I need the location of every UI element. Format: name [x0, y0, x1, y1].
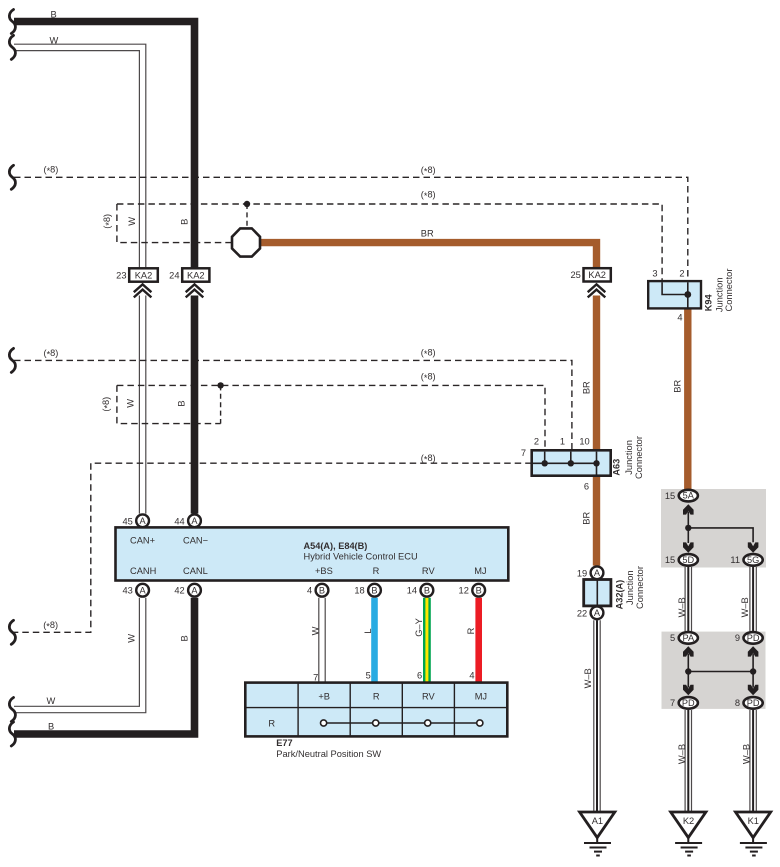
svg-text:B: B: [180, 635, 190, 641]
svg-text:5A: 5A: [683, 491, 695, 501]
svg-text:PA: PA: [683, 633, 695, 643]
svg-text:8: 8: [735, 698, 740, 708]
svg-text:3: 3: [652, 269, 657, 279]
wire BR: octagon to connector KA2 pin 25: [260, 243, 597, 269]
harness break squiggle at (*8) line y360: [9, 348, 15, 372]
svg-text:9: 9: [735, 633, 740, 643]
svg-text:5: 5: [366, 671, 371, 681]
svg-text:CANL: CANL: [183, 566, 208, 576]
svg-text:2: 2: [534, 437, 539, 447]
svg-text:L: L: [363, 628, 373, 633]
harness break squiggle at B bottom exit: [9, 722, 15, 746]
svg-text:PD: PD: [682, 698, 695, 708]
connector KA2 pin 25 chevron: [588, 284, 606, 297]
svg-text:A32(A): A32(A): [614, 580, 624, 610]
dashed option line (*8) to A63 pin 1: [14, 360, 572, 450]
svg-text:(*8): (*8): [102, 214, 114, 229]
wire W (CANH) hollow: ECU pin 43 to left exit: [14, 598, 143, 710]
svg-text:B: B: [51, 9, 57, 19]
svg-text:PD: PD: [747, 698, 760, 708]
svg-text:+B: +B: [318, 692, 330, 702]
svg-text:(*8): (*8): [421, 453, 436, 465]
wire B (CAN-) thick black: top entry to connector KA2 pin 24: [14, 22, 195, 269]
svg-text:5D: 5D: [682, 555, 694, 565]
svg-text:5: 5: [670, 633, 675, 643]
svg-text:11: 11: [730, 555, 740, 565]
svg-text:22: 22: [577, 608, 587, 618]
svg-text:A: A: [140, 516, 147, 526]
svg-text:25: 25: [570, 270, 580, 280]
svg-text:(*8): (*8): [44, 348, 59, 360]
svg-text:B: B: [180, 219, 190, 225]
svg-text:Connector: Connector: [724, 269, 734, 312]
svg-text:W–B: W–B: [677, 744, 687, 764]
shield panel (upper right connector block shading): [661, 489, 766, 568]
harness break squiggle at (*8) line y177: [9, 165, 15, 189]
svg-text:R: R: [373, 566, 380, 576]
svg-text:4: 4: [677, 313, 682, 323]
svg-text:Park/Neutral Position SW: Park/Neutral Position SW: [276, 749, 381, 759]
wire W-B: PD pin 7 to ground K2: [684, 710, 692, 812]
svg-text:BR: BR: [581, 512, 591, 525]
svg-text:A: A: [191, 585, 198, 595]
svg-text:2: 2: [679, 269, 684, 279]
svg-text:KA2: KA2: [135, 270, 153, 280]
node 5G oval pin: [730, 554, 762, 566]
svg-text:6: 6: [417, 671, 422, 681]
svg-text:(*8): (*8): [421, 189, 436, 201]
svg-text:K94: K94: [703, 293, 713, 311]
svg-text:(*8): (*8): [421, 165, 436, 177]
wire L (blue): ECU pin 18 to E77 pin 5: [371, 598, 378, 683]
svg-text:(*8): (*8): [43, 620, 58, 632]
connector arrow down into PD pin 8: [748, 685, 759, 695]
wire B (CANL): ECU pin 42 to left exit: [14, 598, 195, 734]
svg-text:RV: RV: [422, 566, 436, 576]
wire R (red): ECU pin 12 to E77 pin 4: [475, 598, 482, 683]
wire B (CAN-): below KA2 chevron to ECU pin 44: [191, 296, 199, 514]
wire W (CAN+) hollow white wire: top entry to connector KA2 pin 23: [14, 47, 143, 268]
shield octagon: [232, 228, 260, 256]
ground A1: [580, 812, 615, 856]
svg-text:BR: BR: [672, 380, 682, 393]
svg-text:Hybrid Vehicle Control ECU: Hybrid Vehicle Control ECU: [304, 552, 418, 562]
svg-text:4: 4: [469, 671, 474, 681]
harness break squiggle at B top entry: [9, 10, 15, 34]
svg-text:B: B: [319, 585, 325, 595]
dashed option line (*8) shield top edge to A63 pin 2: [117, 385, 545, 450]
svg-text:W: W: [127, 634, 137, 643]
dashed shield box lower (left and bottom edges): [117, 385, 221, 423]
svg-text:W–B: W–B: [677, 597, 687, 617]
svg-text:(*8): (*8): [44, 165, 59, 177]
svg-text:6: 6: [584, 482, 589, 492]
connector arrow down into 5D: [683, 542, 694, 552]
node PA oval pin 5: [670, 632, 698, 644]
svg-text:15: 15: [665, 491, 675, 501]
wire link PA to junction: [687, 654, 689, 688]
connector arrow up into PD pin 9: [748, 646, 759, 656]
wire link PD9 to junction: [752, 654, 754, 688]
wire BR: K94 pin 4 down to 5A: [684, 308, 691, 489]
svg-text:W–B: W–B: [583, 668, 593, 688]
wire BR: below KA2 chevron through A63 to A32(A) pin 19: [593, 296, 600, 566]
dashed drop from junction to shield octagon: [246, 204, 248, 228]
dashed option line (*8) shield top edge to K94 pin 3: [117, 204, 662, 281]
svg-text:44: 44: [174, 516, 184, 526]
svg-text:CAN+: CAN+: [130, 536, 155, 546]
junction dot lower left: [685, 668, 691, 674]
ECU pin 14 circle (B): [407, 584, 434, 597]
connector arrow up into 5A: [683, 504, 694, 514]
svg-text:MJ: MJ: [474, 566, 486, 576]
svg-text:43: 43: [122, 586, 132, 596]
dashed shield box upper (left and bottom edges): [117, 204, 232, 243]
svg-text:K1: K1: [748, 816, 759, 826]
svg-text:K2: K2: [683, 816, 694, 826]
ground K2: [671, 812, 706, 856]
svg-text:A63: A63: [612, 459, 622, 476]
node PD oval pin 7: [670, 697, 698, 709]
harness break squiggle at (*8) line y632: [9, 620, 15, 644]
dashed option line (*8) to A63 pin 7: [14, 463, 532, 632]
svg-text:24: 24: [169, 270, 179, 280]
node 5D oval pin: [665, 554, 698, 566]
svg-text:A: A: [191, 516, 198, 526]
A32(A) pin 19 circle: [577, 566, 604, 579]
node PD oval pin 9: [735, 632, 763, 644]
wire W-B: 5D to PA: [684, 567, 692, 631]
junction connector A63: [532, 450, 611, 475]
svg-text:7: 7: [521, 448, 526, 458]
svg-text:B: B: [48, 722, 54, 732]
svg-text:Connector: Connector: [635, 566, 645, 609]
connector KA2 pin 23 chevron: [134, 284, 152, 297]
wire link between lower junction dots: [688, 671, 753, 673]
svg-text:W–B: W–B: [742, 744, 752, 764]
junction dot lower right: [750, 668, 756, 674]
svg-text:(*8): (*8): [421, 347, 436, 359]
svg-text:7: 7: [313, 672, 318, 682]
svg-text:23: 23: [116, 270, 126, 280]
svg-text:KA2: KA2: [588, 270, 606, 280]
junction dot below 5A: [685, 525, 691, 531]
junction dot on (*8) line at shield box lower: [217, 382, 223, 388]
connector arrow down into PD pin 7: [683, 685, 694, 695]
svg-text:12: 12: [459, 586, 469, 596]
switch E77 Park/Neutral Position SW box: [245, 683, 507, 737]
svg-text:14: 14: [407, 586, 417, 596]
ECU pin 12 circle (B): [459, 584, 486, 597]
harness break squiggle at W top entry: [9, 35, 15, 59]
svg-text:E77: E77: [276, 738, 292, 748]
ECU pin 45 circle (A): [122, 514, 149, 527]
ECU A54(A), E84(B) box: [116, 527, 509, 580]
svg-text:19: 19: [577, 568, 587, 578]
svg-text:(*8): (*8): [101, 397, 113, 412]
ECU pin 43 circle (A): [122, 584, 149, 597]
node 5A oval pin: [665, 490, 698, 502]
wire link junction to 5G branch: [688, 528, 753, 542]
dashed drop from junction to shield box lower: [220, 385, 222, 423]
svg-text:15: 15: [665, 555, 675, 565]
svg-text:A54(A), E84(B): A54(A), E84(B): [304, 541, 368, 551]
E77 switch contacts: [321, 720, 483, 726]
svg-text:R: R: [466, 627, 476, 634]
wire link 5A to junction: [687, 512, 689, 544]
svg-text:5G: 5G: [747, 555, 759, 565]
svg-text:42: 42: [174, 586, 184, 596]
connector arrow up into PA: [683, 646, 694, 656]
svg-text:W: W: [50, 35, 59, 45]
svg-text:CAN−: CAN−: [183, 536, 208, 546]
ECU pin 4 circle (B): [307, 584, 328, 597]
junction connector K94: [648, 281, 701, 308]
svg-text:A: A: [594, 608, 601, 618]
wire W-B: A32(A) pin 22 to ground A1: [593, 620, 601, 812]
A32(A) pin 22 circle: [577, 606, 604, 619]
ECU pin 18 circle (B): [354, 584, 381, 597]
node PD oval pin 8: [735, 697, 763, 709]
wire W-B: PD pin 8 to ground K1: [749, 710, 757, 812]
svg-text:Junction: Junction: [715, 277, 725, 312]
ECU pin 42 circle (A): [174, 584, 201, 597]
svg-text:(*8): (*8): [421, 371, 436, 383]
svg-text:G–Y: G–Y: [414, 618, 424, 637]
svg-text:7: 7: [670, 698, 675, 708]
connector KA2 pin 23 box: [116, 268, 158, 281]
wire W (+BS) hollow: ECU pin 4 to E77 pin 7: [318, 598, 326, 683]
svg-text:B: B: [424, 585, 430, 595]
svg-text:B: B: [371, 585, 377, 595]
junction connector A32(A): [584, 580, 611, 606]
svg-text:45: 45: [122, 516, 132, 526]
svg-text:A: A: [140, 585, 147, 595]
connector KA2 pin 25 box: [570, 268, 610, 281]
svg-text:BR: BR: [581, 381, 591, 394]
svg-text:KA2: KA2: [187, 270, 205, 280]
harness break squiggle at W bottom exit: [9, 698, 15, 722]
ECU pin 44 circle (A): [174, 514, 201, 527]
svg-text:A: A: [594, 568, 601, 578]
svg-text:PD: PD: [747, 633, 760, 643]
junction dot on (*8) line above octagon: [244, 201, 250, 207]
svg-text:W: W: [125, 399, 135, 408]
svg-text:W–B: W–B: [740, 597, 750, 617]
svg-text:W: W: [127, 217, 137, 226]
svg-text:R: R: [268, 719, 275, 729]
dashed option line (*8) to K94 pin 2: [14, 177, 688, 281]
svg-text:10: 10: [579, 437, 589, 447]
svg-text:A1: A1: [592, 816, 603, 826]
svg-text:+BS: +BS: [315, 566, 333, 576]
svg-text:R: R: [373, 692, 380, 702]
svg-text:BR: BR: [421, 228, 434, 238]
svg-text:Junction: Junction: [625, 570, 635, 605]
wire W-B: 5G to PD pin 9: [749, 567, 757, 631]
svg-text:CANH: CANH: [130, 566, 156, 576]
connector arrow down into 5G: [748, 542, 759, 552]
connector KA2 pin 24 chevron: [186, 284, 204, 297]
svg-text:18: 18: [354, 586, 364, 596]
wire W (CAN+) hollow: below KA2 chevron to ECU pin 45: [139, 296, 147, 514]
svg-text:W: W: [47, 696, 56, 706]
svg-text:1: 1: [560, 437, 565, 447]
ground K1: [736, 812, 771, 856]
svg-text:B: B: [177, 400, 187, 406]
svg-text:RV: RV: [422, 692, 436, 702]
connector KA2 pin 24 box: [169, 268, 209, 281]
svg-text:MJ: MJ: [475, 692, 487, 702]
shield panel (lower right connector block shading): [662, 632, 766, 709]
svg-text:W: W: [310, 626, 320, 635]
svg-text:Junction: Junction: [624, 440, 634, 475]
svg-text:4: 4: [307, 586, 312, 596]
svg-text:B: B: [476, 585, 482, 595]
wire G-Y (green-yellow): ECU pin 14 to E77 pin 6: [423, 598, 431, 683]
svg-text:Connector: Connector: [634, 436, 644, 479]
